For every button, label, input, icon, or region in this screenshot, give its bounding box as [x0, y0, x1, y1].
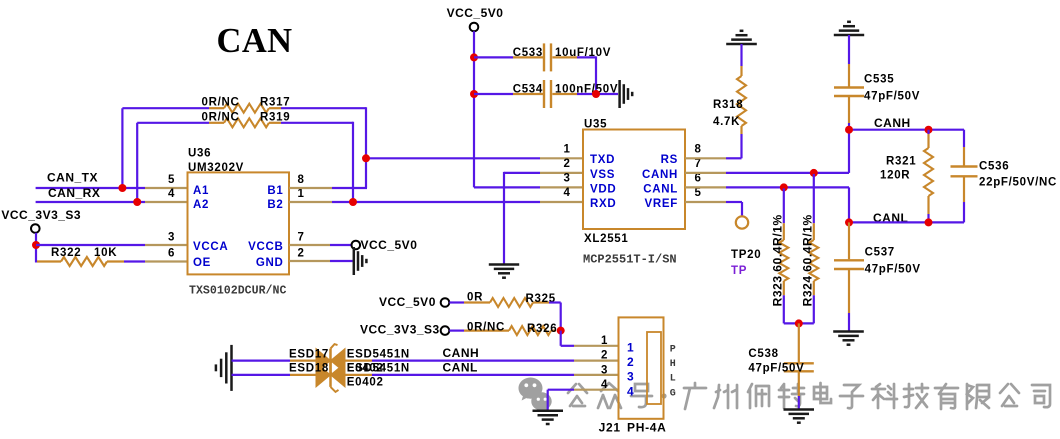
- wire VCCA feed: [36, 244, 188, 246]
- resistor R324: [809, 174, 818, 324]
- svg-text:C536: C536: [979, 161, 1009, 173]
- capacitor C536: [951, 161, 1058, 189]
- svg-text:0R/NC: 0R/NC: [202, 97, 240, 109]
- wire C537 bottom: [848, 270, 850, 331]
- svg-text:VCC_3V3_S3: VCC_3V3_S3: [360, 323, 440, 337]
- svg-text:10K: 10K: [94, 247, 117, 259]
- capacitor C537: [834, 247, 921, 276]
- R323 labels rotated: [770, 214, 784, 306]
- svg-text:CANH: CANH: [642, 169, 678, 181]
- diode ESD17: [289, 344, 410, 378]
- junction B2/RXD: [349, 198, 357, 206]
- svg-text:0R: 0R: [467, 292, 483, 304]
- junction B1/TXD: [362, 154, 370, 162]
- svg-text:B1: B1: [267, 185, 283, 197]
- wire C538 bottom: [798, 372, 800, 409]
- svg-text:1: 1: [627, 341, 634, 355]
- ground right-facing at U36 GND: [354, 247, 367, 275]
- svg-text:CANH: CANH: [443, 346, 480, 360]
- svg-text:3: 3: [601, 364, 608, 376]
- svg-text:GND: GND: [256, 257, 284, 269]
- ground right-facing at C534: [620, 80, 633, 108]
- wire R317 row: [122, 107, 366, 109]
- svg-text:C535: C535: [864, 74, 894, 86]
- svg-text:5: 5: [168, 174, 175, 186]
- svg-text:0R/NC: 0R/NC: [467, 321, 505, 333]
- wire VREF to TP20: [685, 202, 742, 216]
- svg-text:47pF/50V: 47pF/50V: [865, 263, 921, 275]
- resistor R321: [880, 130, 933, 223]
- svg-text:22pF/50V/NC: 22pF/50V/NC: [979, 176, 1057, 188]
- wire junction to J21 pin1: [561, 331, 619, 346]
- J21 designator: [599, 420, 667, 434]
- wire C537 top lead: [848, 222, 850, 259]
- junction CANH/R324: [810, 169, 818, 177]
- svg-text:H: H: [670, 359, 676, 370]
- power flag VCC_3V3_S3 left: [1, 208, 81, 233]
- wire CANL net: [849, 221, 964, 223]
- power flag VCC_3V3_S3 bottom: [360, 323, 449, 337]
- svg-text:ESD18: ESD18: [289, 363, 329, 375]
- svg-text:VCC_3V3_S3: VCC_3V3_S3: [1, 208, 81, 222]
- J21 pin function letters: [670, 345, 676, 400]
- svg-text:CAN_RX: CAN_RX: [48, 186, 100, 200]
- svg-text:47pF/50V: 47pF/50V: [864, 90, 920, 102]
- wire ESD18 row CANL: [232, 374, 619, 376]
- wire CANH pin row: [685, 129, 849, 173]
- svg-text:CAN: CAN: [217, 22, 293, 60]
- svg-text:R321: R321: [886, 156, 916, 168]
- svg-text:U36: U36: [188, 148, 211, 160]
- wire TXD stub: [540, 157, 583, 159]
- svg-text:5: 5: [694, 187, 701, 199]
- junction VCC/C534: [470, 90, 478, 98]
- svg-text:R317: R317: [260, 97, 290, 109]
- svg-text:CANH: CANH: [874, 116, 911, 130]
- svg-text:7: 7: [297, 232, 304, 244]
- wire C535 top: [848, 35, 850, 87]
- wire B2/RXD row: [289, 201, 540, 203]
- svg-text:P: P: [670, 345, 676, 356]
- U36 pin numbers: [168, 174, 305, 260]
- svg-text:6: 6: [694, 173, 701, 185]
- junction VCC/C533: [470, 53, 478, 61]
- svg-text:MCP2551T-I/SN: MCP2551T-I/SN: [583, 253, 677, 267]
- wire CANL pin row: [685, 187, 849, 222]
- resistor R319: [202, 111, 291, 127]
- wire C534 right to ground: [552, 93, 618, 95]
- svg-text:C533: C533: [513, 47, 543, 59]
- wire J21 pin4 to ground: [548, 390, 619, 410]
- diode ESD18: [289, 358, 410, 392]
- wire CANH net: [849, 129, 964, 131]
- junction VCC_3V3_S3: [32, 241, 40, 249]
- svg-text:E0402: E0402: [347, 363, 384, 375]
- svg-text:TP: TP: [731, 265, 747, 277]
- svg-text:3: 3: [627, 370, 634, 384]
- wire CAN_RX: [36, 201, 188, 203]
- svg-text:8: 8: [694, 144, 701, 156]
- svg-text:R318: R318: [713, 99, 743, 111]
- U35 pin numbers: [563, 144, 701, 200]
- svg-text:TP20: TP20: [731, 249, 761, 261]
- power flag VCC_5V0 at VCCB: [352, 238, 418, 252]
- svg-text:C537: C537: [865, 247, 895, 259]
- junction R325/R326: [557, 327, 565, 335]
- svg-text:CAN_TX: CAN_TX: [47, 171, 98, 185]
- svg-text:CANL: CANL: [443, 360, 478, 374]
- svg-text:VREF: VREF: [645, 198, 678, 210]
- junction CANH/C535: [845, 126, 853, 134]
- svg-text:G: G: [670, 388, 676, 399]
- wire riser CAN_TX to R317: [121, 108, 123, 188]
- svg-text:1: 1: [297, 188, 304, 200]
- svg-text:7: 7: [694, 158, 701, 170]
- svg-text:4.7K: 4.7K: [713, 116, 740, 128]
- power flag VCC_5V0 bottom: [379, 295, 449, 309]
- wire VCCB pin: [289, 244, 351, 246]
- resistor R322: [37, 247, 124, 266]
- wire riser R317 to B1/TXD node: [365, 107, 367, 188]
- svg-text:4: 4: [627, 384, 634, 398]
- wire R319 row: [137, 122, 353, 124]
- svg-text:VCC_5V0: VCC_5V0: [379, 295, 436, 309]
- wire C535 bottom: [848, 97, 850, 130]
- wire R322 to OE pin: [124, 260, 188, 262]
- svg-text:60.4R/1%: 60.4R/1%: [770, 214, 784, 272]
- svg-text:6: 6: [168, 248, 175, 260]
- svg-text:2: 2: [601, 350, 608, 362]
- wire C533 left lead: [474, 56, 544, 58]
- junction CANL/C537: [845, 218, 853, 226]
- svg-text:1: 1: [563, 144, 570, 156]
- svg-text:C534: C534: [513, 84, 543, 96]
- svg-text:UM3202V: UM3202V: [188, 162, 244, 174]
- capacitor C538: [748, 348, 813, 375]
- resistor R318: [713, 76, 746, 128]
- wire R318 bottom to RS: [685, 126, 742, 158]
- svg-text:1: 1: [601, 335, 608, 347]
- svg-text:U35: U35: [584, 119, 607, 131]
- svg-text:120R: 120R: [880, 170, 910, 182]
- watermark text and wechat logo: [519, 377, 1051, 411]
- ground below VSS: [489, 265, 519, 278]
- svg-text:L: L: [670, 374, 676, 385]
- resistor R325: [449, 292, 555, 307]
- op-amp U36 body: [188, 172, 290, 274]
- svg-text:A1: A1: [193, 185, 209, 197]
- power flag VCC_5V0 top: [447, 6, 504, 31]
- wire R318 top: [740, 44, 742, 76]
- svg-text:0R/NC: 0R/NC: [202, 111, 240, 123]
- svg-text:3: 3: [168, 232, 175, 244]
- wire VCC_3V3_S3 down: [35, 233, 37, 263]
- svg-text:VCCA: VCCA: [193, 241, 228, 253]
- svg-text:47pF/50V: 47pF/50V: [748, 363, 804, 375]
- svg-text:VCCB: VCCB: [248, 241, 283, 253]
- junction C534/C533 node: [592, 90, 600, 98]
- junction CANH/R321: [925, 126, 933, 134]
- svg-text:CANL: CANL: [643, 183, 678, 195]
- svg-text:VCC_5V0: VCC_5V0: [447, 6, 504, 20]
- ground above R318: [726, 31, 757, 44]
- svg-text:3: 3: [563, 173, 570, 185]
- wire C534 left lead: [474, 93, 544, 95]
- svg-text:VCC_5V0: VCC_5V0: [361, 238, 418, 252]
- wire U36 GND pin: [289, 260, 353, 262]
- ground below J21 pin4: [533, 411, 564, 424]
- wire TXD link row: [366, 157, 540, 159]
- wire C536 top: [963, 130, 965, 166]
- wire C533 right to corner: [552, 56, 596, 94]
- U35 pin names right: [642, 154, 678, 210]
- svg-text:VDD: VDD: [590, 183, 616, 195]
- svg-text:C538: C538: [748, 348, 778, 360]
- ground below C537: [833, 332, 864, 345]
- ground below C538: [784, 410, 815, 423]
- J21 inside pin numbers: [627, 341, 634, 399]
- wire VCC_5V0 vertical rail: [473, 31, 475, 187]
- connector J21 body: [619, 317, 664, 418]
- resistor R317: [202, 97, 291, 113]
- svg-text:VSS: VSS: [590, 169, 615, 181]
- svg-text:RS: RS: [661, 154, 678, 166]
- svg-text:E0402: E0402: [347, 376, 384, 388]
- capacitor C535: [834, 74, 920, 103]
- J21 outside pin numbers: [601, 335, 608, 391]
- svg-text:RXD: RXD: [590, 198, 616, 210]
- svg-text:4: 4: [563, 187, 570, 199]
- svg-text:PH-4A: PH-4A: [627, 420, 667, 434]
- resistor R323: [779, 188, 788, 323]
- U36 designator: [188, 148, 244, 175]
- U35 pin names left: [590, 154, 616, 210]
- svg-text:4: 4: [168, 188, 175, 200]
- junction CANL/R323: [780, 183, 788, 191]
- wire C536 bottom: [963, 177, 965, 222]
- wire riser CAN_RX to R319: [136, 123, 138, 202]
- svg-text:R319: R319: [260, 111, 290, 123]
- svg-text:R322: R322: [51, 247, 81, 259]
- wire ESD17 row CANH: [232, 360, 619, 362]
- svg-text:2: 2: [627, 355, 634, 369]
- svg-text:2: 2: [563, 158, 570, 170]
- svg-text:60.4R/1%: 60.4R/1%: [800, 214, 814, 272]
- wire RXD stub: [540, 201, 583, 203]
- wire riser R319 to B2/RXD node: [352, 122, 354, 202]
- wire B1 pin to riser: [289, 187, 367, 189]
- svg-text:OE: OE: [193, 257, 211, 269]
- wire VSS net: [504, 172, 583, 265]
- junction termination center: [795, 319, 803, 327]
- svg-text:R326: R326: [527, 323, 557, 335]
- transistor U35 body: [583, 130, 685, 230]
- svg-text:2: 2: [297, 248, 304, 260]
- wire VDD feed: [474, 186, 583, 188]
- svg-text:8: 8: [297, 174, 304, 186]
- svg-text:ESD17: ESD17: [289, 349, 329, 361]
- R324 labels rotated: [800, 214, 814, 306]
- wire R323/R324 bottom join: [784, 322, 814, 324]
- test point TP20: [731, 216, 761, 277]
- svg-text:R324: R324: [800, 275, 814, 306]
- svg-text:R323: R323: [770, 275, 784, 306]
- resistor R326: [449, 321, 557, 335]
- wire C538 top lead: [798, 323, 800, 362]
- svg-text:A2: A2: [193, 199, 209, 211]
- svg-text:J21: J21: [599, 420, 621, 434]
- wire CAN_TX: [36, 187, 188, 189]
- junction CAN_TX: [118, 184, 126, 192]
- U36 pin names right: [248, 185, 283, 269]
- svg-text:TXD: TXD: [590, 154, 615, 166]
- svg-text:B2: B2: [267, 199, 283, 211]
- capacitor C534: [513, 80, 619, 108]
- junction CAN_RX: [133, 198, 141, 206]
- ground left-facing at ESD: [216, 345, 232, 391]
- junction CANL/R321: [925, 218, 933, 226]
- svg-text:ESD5451N: ESD5451N: [347, 349, 410, 361]
- capacitor C533: [513, 43, 611, 71]
- svg-text:XL2551: XL2551: [584, 233, 628, 245]
- ground above C535: [834, 22, 864, 35]
- svg-text:4: 4: [601, 379, 608, 391]
- wire R325 to junction: [549, 303, 561, 331]
- U36 pin names left: [193, 185, 228, 269]
- svg-text:TXS0102DCUR/NC: TXS0102DCUR/NC: [189, 285, 286, 298]
